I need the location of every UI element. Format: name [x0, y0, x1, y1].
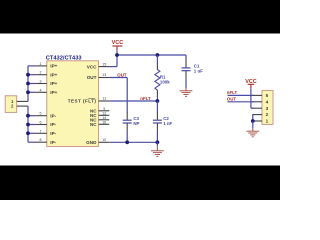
svg-text:GND: GND — [86, 140, 97, 145]
wire nFLT from pin 11 — [109, 95, 157, 107]
svg-text:100k: 100k — [160, 80, 170, 85]
svg-text:OUT: OUT — [87, 75, 97, 80]
svg-text:C3: C3 — [133, 116, 139, 121]
overline on FLT — [88, 96, 95, 101]
svg-text:13: 13 — [102, 73, 106, 77]
svg-text:3: 3 — [40, 80, 42, 84]
bottom letterbox band — [0, 166, 280, 201]
svg-text:4: 4 — [266, 99, 269, 104]
svg-text:11: 11 — [102, 97, 106, 101]
svg-text:OUT: OUT — [227, 97, 237, 102]
svg-text:2: 2 — [266, 112, 269, 117]
svg-text:VCC: VCC — [87, 64, 97, 69]
svg-text:nFLT: nFLT — [140, 96, 151, 101]
ground symbol below JP2 — [246, 126, 259, 136]
svg-text:9: 9 — [103, 107, 105, 111]
svg-text:VCC: VCC — [112, 40, 124, 46]
svg-text:IP-: IP- — [50, 131, 56, 136]
wire IP+ bus vertical — [22, 66, 34, 102]
svg-text:16: 16 — [102, 120, 106, 124]
svg-text:4: 4 — [40, 88, 42, 92]
svg-text:C2: C2 — [163, 116, 169, 121]
svg-text:IP-: IP- — [50, 113, 56, 118]
svg-text:NP: NP — [133, 121, 139, 126]
svg-text:IP+: IP+ — [50, 72, 57, 77]
svg-text:5: 5 — [266, 93, 269, 98]
IC U1 pin 15 VCC stub — [99, 61, 110, 72]
junction node GND / C2 — [156, 140, 160, 144]
junction dots IP- bus — [26, 114, 30, 118]
svg-text:12: 12 — [102, 111, 106, 115]
wire OUT from pin 13 — [109, 72, 127, 84]
svg-text:NC: NC — [90, 113, 97, 118]
svg-text:6: 6 — [40, 121, 42, 125]
svg-text:8: 8 — [40, 138, 42, 142]
svg-text:3: 3 — [266, 106, 269, 111]
wires IP+ pin connections — [28, 60, 36, 72]
wire VCC to JP2 pin 3 — [245, 89, 257, 108]
svg-text:10: 10 — [102, 138, 106, 142]
svg-text:15: 15 — [102, 62, 106, 66]
wire IP- bus vertical — [22, 106, 34, 142]
svg-text:C1: C1 — [194, 64, 200, 69]
svg-text:IP+: IP+ — [50, 64, 57, 69]
svg-text:14: 14 — [102, 116, 106, 120]
svg-text:2: 2 — [40, 71, 42, 75]
wire nFLT to JP2 pin 5 — [228, 89, 254, 101]
wire GND to ground symbol — [151, 142, 163, 146]
capacitor C3 NP — [122, 112, 133, 120]
connector JP1 body — [5, 96, 17, 113]
svg-text:NC: NC — [90, 108, 97, 113]
wire JP2 pin 1 to ground — [247, 121, 259, 128]
IC U1 left pin stubs 1-8 — [36, 60, 47, 71]
wire pin15 to VCC rail — [109, 61, 117, 73]
IC U1 NC pins 9,12,14,16 stubs — [99, 105, 110, 116]
svg-text:nFLT: nFLT — [227, 90, 238, 95]
resistor R1 100k — [151, 55, 163, 62]
svg-text:IP+: IP+ — [50, 90, 57, 95]
connector JP2 body — [262, 90, 273, 124]
junction node VCC rail / symbol — [115, 53, 119, 57]
svg-text:CT432/CT433: CT432/CT433 — [46, 55, 82, 61]
svg-text:IP-: IP- — [50, 140, 56, 145]
svg-text:1: 1 — [40, 62, 42, 66]
top letterbox band — [0, 0, 280, 34]
svg-text:IP-: IP- — [50, 122, 56, 127]
JP1 pin 2 stub — [17, 101, 28, 112]
wires IP- pin connections — [28, 110, 36, 122]
JP2 pin stubs — [252, 90, 262, 101]
svg-text:R1: R1 — [160, 75, 166, 80]
capacitor C1 1 uF — [180, 55, 192, 61]
wire VCC rail horizontal — [117, 49, 186, 61]
JP1 pin 1 stub — [17, 96, 28, 107]
junction dots IP+ bus — [26, 73, 30, 77]
capacitor C2 1 nF — [151, 101, 163, 113]
svg-text:NC: NC — [90, 117, 97, 122]
wire JP2 pins 1-2 tie — [247, 115, 259, 121]
svg-text:1 nF: 1 nF — [163, 121, 172, 126]
IC U1 pin 11 TEST (FLT) stub — [99, 96, 110, 107]
wire VCC symbol to rail — [111, 51, 123, 55]
junction node nFLT / R1 / C2 — [156, 99, 160, 103]
ground symbol below C2 — [151, 146, 164, 156]
svg-text:IP+: IP+ — [50, 81, 57, 86]
IC U1 pin 10 GND stub — [99, 137, 110, 148]
svg-text:1: 1 — [266, 119, 269, 124]
op-amp/IC U1 CT432/CT433 body — [47, 61, 99, 147]
svg-text:7: 7 — [40, 129, 42, 133]
wire OUT to JP2 pin 4 — [228, 96, 254, 108]
IC U1 pin 13 OUT stub — [99, 72, 110, 83]
svg-text:NC: NC — [90, 122, 97, 127]
svg-text:TEST (FLT): TEST (FLT) — [68, 99, 97, 104]
wire GND from pin 10 — [109, 136, 157, 148]
svg-text:OUT: OUT — [117, 72, 127, 77]
svg-text:5: 5 — [40, 112, 42, 116]
svg-text:1 uF: 1 uF — [194, 69, 203, 74]
junction node GND / C3 — [125, 140, 129, 144]
junction node JP2 pin1/ground — [251, 119, 255, 123]
junction node VCC rail / R1 — [156, 53, 160, 57]
ground symbol below C1 — [180, 86, 193, 96]
